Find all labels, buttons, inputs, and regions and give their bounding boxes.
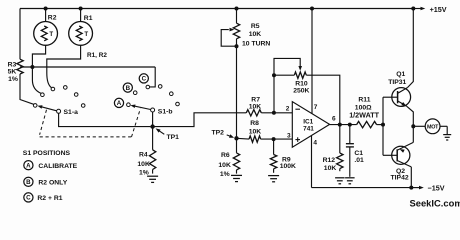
node TP1 [150, 124, 179, 141]
svg-text:10K: 10K [324, 165, 337, 172]
wire down to S1-b C contact [150, 67, 155, 87]
svg-text:Q1: Q1 [396, 71, 405, 78]
node motor tap [411, 124, 415, 128]
wire Q1 collector to +15V rail [407, 9, 413, 88]
node rail-R1 [79, 7, 83, 11]
resistor R6 [218, 138, 239, 178]
position label C [139, 74, 148, 83]
svg-text:7: 7 [314, 104, 318, 111]
svg-text:R3: R3 [8, 61, 17, 68]
svg-text:741: 741 [303, 126, 314, 133]
svg-text:R5: R5 [251, 23, 260, 30]
svg-text:A: A [26, 162, 31, 169]
svg-text:R1, R2: R1, R2 [87, 52, 107, 59]
pin 6 label [332, 116, 336, 123]
wire R7 to pin 2 [261, 112, 292, 114]
ground below C1 [345, 178, 355, 184]
svg-text:3: 3 [287, 133, 291, 140]
node R5 wiper tie [235, 44, 239, 48]
svg-text:MOT: MOT [427, 124, 439, 130]
resistor R8 [237, 120, 262, 142]
svg-text:4: 4 [313, 140, 317, 147]
svg-text:100K: 100K [280, 163, 296, 170]
svg-text:R2: R2 [48, 14, 57, 21]
node R2/R3 junction wire [20, 66, 155, 68]
svg-text:1/2WATT: 1/2WATT [349, 111, 379, 120]
svg-text:S1 POSITIONS: S1 POSITIONS [23, 150, 71, 157]
watermark SeekIC.com [410, 197, 460, 208]
svg-text:IC1: IC1 [303, 119, 313, 126]
svg-text:10K: 10K [218, 162, 231, 169]
svg-text:10K: 10K [137, 161, 150, 168]
legend C R2+R1 [24, 193, 63, 202]
svg-text:250K: 250K [293, 88, 309, 95]
node rail +15V corner [411, 7, 415, 11]
svg-text:10K: 10K [249, 104, 262, 111]
wire R5 to TP2 [236, 39, 238, 139]
switch S1-b contact B [133, 91, 137, 95]
ground below motor [443, 135, 451, 140]
dashed gang link left [40, 110, 47, 135]
svg-text:TIP31: TIP31 [388, 79, 406, 86]
op-amp IC1 741 [292, 102, 329, 148]
thermistor R1 [69, 9, 93, 46]
wire R1 lead to S1-a contact 3 [47, 45, 81, 87]
wire TP1 to R7 [153, 113, 247, 127]
svg-text:R2 + R1: R2 + R1 [37, 195, 62, 202]
svg-text:10K: 10K [249, 128, 262, 135]
potentiometer R5 [221, 9, 270, 48]
svg-text:10K: 10K [249, 31, 262, 38]
node R10 left [272, 73, 276, 77]
transistor Q2 TIP42 [383, 142, 413, 181]
dashed gang link bottom [40, 136, 132, 138]
switch S1-b contact A [127, 103, 131, 107]
wire op-amp output [330, 124, 357, 126]
wire R2 lead to junction [32, 45, 45, 67]
svg-text:B: B [26, 179, 31, 186]
pin 2 label [286, 106, 290, 113]
wire Q2 emitter rail [412, 126, 414, 142]
position label A [114, 98, 123, 107]
dashed gang link right [132, 109, 141, 137]
svg-text:TP2: TP2 [212, 129, 225, 136]
legend title S1 POSITIONS [23, 150, 71, 157]
resistor R3 [8, 59, 24, 83]
resistor R9 [270, 139, 296, 173]
resistor R4 [137, 127, 155, 177]
node output-C1 [348, 123, 352, 127]
svg-text:T: T [84, 31, 88, 38]
switch S1-a contact 4 [64, 86, 68, 90]
svg-text:R2 ONLY: R2 ONLY [38, 179, 67, 186]
svg-text:S1-a: S1-a [64, 109, 79, 116]
wire R3 bottom to S1-a first contact [20, 74, 34, 104]
resistor R7 [246, 96, 261, 116]
svg-text:.01: .01 [354, 157, 364, 164]
svg-text:R8: R8 [250, 120, 259, 127]
wire junction to S1-a contact 2 [32, 67, 41, 93]
transistor Q1 TIP31 [383, 71, 411, 107]
svg-text:C: C [26, 195, 31, 202]
switch S1-b wiper [130, 105, 172, 116]
ground below R4 [147, 176, 158, 182]
svg-text:+15V: +15V [430, 5, 447, 14]
ground below R6 [231, 175, 242, 181]
svg-text:R1: R1 [84, 15, 93, 22]
node R11-base rail [381, 123, 385, 127]
svg-text:R10: R10 [295, 81, 308, 88]
switch S1-b contact C [146, 85, 150, 89]
svg-text:A: A [117, 100, 122, 107]
wire S1-a wiper to TP1 [59, 113, 151, 126]
svg-text:2: 2 [286, 106, 290, 113]
svg-text:6: 6 [332, 116, 336, 123]
capacitor C1 [346, 125, 364, 177]
svg-text:1%: 1% [8, 76, 18, 83]
wire Q2 collector to -15V [410, 167, 412, 188]
pin 3 label [287, 133, 291, 140]
svg-text:R7: R7 [251, 96, 260, 103]
svg-text:T: T [49, 31, 53, 38]
node output-R12 [338, 123, 342, 127]
wire pin 4 to -15V [312, 136, 318, 188]
wire S1-b wiper to TP1 [152, 112, 154, 127]
svg-text:−15V: −15V [428, 183, 445, 192]
svg-text:CALIBRATE: CALIBRATE [38, 163, 77, 170]
wire Q1 emitter to motor node [407, 106, 413, 126]
svg-text:C: C [142, 76, 147, 83]
svg-text:TP1: TP1 [167, 134, 180, 141]
svg-text:R11: R11 [358, 97, 370, 104]
svg-text:TIP42: TIP42 [391, 174, 409, 181]
svg-text:C1: C1 [354, 150, 363, 157]
switch S1-a contact 1 (from R3) [33, 104, 37, 108]
svg-text:R12: R12 [323, 157, 336, 164]
wire R10 left to inverting input [273, 75, 275, 113]
motor MOT [413, 119, 447, 134]
svg-text:SeekIC.com: SeekIC.com [410, 197, 460, 208]
wire -15V bottom [312, 187, 412, 189]
node -15V junction [409, 186, 413, 190]
thermistor R2 [34, 9, 58, 46]
wire +15V top rail [20, 8, 413, 10]
wire R10 right to output [306, 75, 340, 124]
switch S1-b contact 4 [158, 85, 162, 89]
switch S1-a wiper [37, 105, 78, 116]
svg-text:1%: 1% [220, 171, 230, 178]
node R2 junction [30, 65, 34, 69]
wire R8 to pin 3 [261, 138, 293, 140]
switch S1-a contact 5 [74, 93, 78, 97]
position label B [123, 83, 132, 92]
legend B R2 ONLY [24, 177, 68, 186]
node non-inverting input [272, 137, 276, 141]
ground below R12 [335, 178, 345, 184]
resistor R12 [323, 125, 343, 172]
switch S1-b contact 6 [176, 102, 180, 106]
ground below R9 [268, 176, 279, 182]
label -15V [411, 183, 444, 192]
potentiometer R10 [274, 58, 310, 94]
legend A CALIBRATE [24, 161, 78, 170]
wire pin 7 to +15V rail [312, 9, 318, 114]
switch S1-a contact 3 [51, 87, 55, 91]
label R1, R2 [87, 52, 107, 59]
node inverting input [272, 111, 276, 115]
svg-text:10 TURN: 10 TURN [242, 40, 270, 47]
switch S1-a contact 2 [41, 93, 45, 97]
node TP2 [212, 129, 239, 140]
node rail-R5 [235, 7, 239, 11]
resistor R11 [349, 97, 383, 128]
svg-text:B: B [126, 85, 131, 92]
node rail-pin7 [310, 7, 314, 11]
switch S1-a contact 6 [81, 104, 85, 108]
label +15V [413, 5, 446, 14]
svg-text:R4: R4 [139, 152, 148, 159]
node rail-R2 [44, 7, 48, 11]
switch S1-b contact 5 [170, 92, 174, 96]
svg-text:S1-b: S1-b [158, 108, 173, 115]
svg-text:R6: R6 [221, 152, 230, 159]
svg-text:5K: 5K [8, 69, 17, 76]
wire left vertical from rail to R3 [19, 9, 21, 60]
wire transistor base rail [382, 97, 384, 155]
